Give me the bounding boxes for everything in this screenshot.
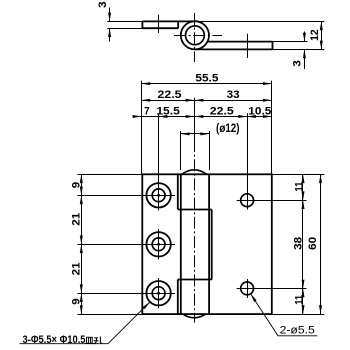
right plate-edge extension lines: [272, 174, 325, 176]
top view: right hole position mark: [247, 34, 249, 58]
svg-text:9: 9: [70, 298, 82, 304]
left dimension column line: [81, 174, 83, 314]
front view: middle knuckle right edge line: [211, 210, 213, 280]
svg-text:60: 60: [307, 237, 319, 250]
top view: barrel horizontal centerline: [174, 35, 222, 37]
svg-text:(ø12): (ø12): [216, 123, 240, 135]
top view: left hole position mark: [158, 15, 160, 33]
svg-text:11: 11: [293, 295, 305, 305]
hole centerline vertical (right col, with extension to dims): [247, 113, 249, 209]
dimension 3 (left leaf thickness): dim lines and arrows: [109, 8, 111, 22]
right dimension column line (60): [320, 174, 322, 314]
hole centerlines horizontal (right col, joined with right dim extensions): [237, 200, 307, 202]
dimension (ø12) barrel diameter: [181, 133, 209, 135]
kanji kou (hole): [94, 337, 103, 344]
svg-text:21: 21: [70, 213, 82, 226]
dimension 3 (right): dim lines and arrows: [304, 32, 306, 42]
front view: hinge vertical centerline: [194, 98, 196, 140]
dimension 12 (overall thickness): extension lines: [195, 21, 324, 23]
hole centerlines horizontal (left col, joined with left dim extension lines): [78, 195, 176, 197]
svg-text:3: 3: [292, 60, 304, 66]
right dimension column line (11/38/11): [302, 174, 304, 314]
svg-text:2-ø5.5: 2-ø5.5: [280, 325, 315, 337]
top view: knuckle barrel outer circle (ø12): [181, 21, 209, 49]
top view: left leaf (flat bar, thickness 3): [142, 20, 195, 22]
extension line from plate left edge: [141, 81, 143, 175]
front view: top knuckle arc bump: [182, 170, 207, 174]
leader line for countersunk holes label: [20, 302, 151, 344]
kanji sara (dish/countersink): [85, 337, 93, 343]
front view: barrel right edge line: [208, 174, 210, 314]
front view: left leaf curl edge line (top band): [177, 174, 179, 209]
top view: knuckle pin bore inner circle: [186, 26, 205, 45]
svg-text:10.5: 10.5: [248, 105, 271, 117]
extension lines for barrel ø12: [180, 131, 182, 170]
svg-text:3-Φ5.5× Φ10.5: 3-Φ5.5× Φ10.5: [23, 334, 86, 346]
dimension 3 (left leaf thickness): extension lines: [107, 21, 142, 23]
svg-text:22.5: 22.5: [210, 105, 234, 117]
top view: right leaf (flat bar, thickness 3): [208, 41, 273, 43]
svg-text:22.5: 22.5: [158, 89, 182, 101]
left plate-edge extension lines: [78, 174, 143, 176]
svg-text:38: 38: [292, 237, 304, 250]
svg-text:55.5: 55.5: [195, 72, 218, 84]
countersunk hole 3 (ø5.5, ø10.5 countersink) at left column: [146, 281, 170, 305]
plain hole 2 (ø5.5) at right column: [241, 282, 254, 295]
front view: middle knuckle bottom boundary: [178, 279, 212, 281]
dimension 12: dim line and arrows: [321, 21, 323, 49]
svg-text:11: 11: [293, 182, 305, 192]
top view: barrel vertical centerline: [194, 13, 196, 62]
svg-text:33: 33: [227, 89, 240, 101]
dimension row 22.5 / 33: [141, 100, 271, 102]
dimension row 7 / 15.5 / 22.5 / 10.5: [133, 116, 271, 118]
front view: plate outline 55.5 x 60: [142, 174, 271, 314]
svg-text:7: 7: [144, 105, 150, 117]
svg-text:3: 3: [97, 2, 109, 8]
hole centerline vertical (left col, with extension to dims): [158, 113, 160, 210]
countersunk hole 2 (ø5.5, ø10.5 countersink) at left column: [146, 232, 170, 256]
front view: left leaf curl edge line (bottom band): [177, 280, 179, 315]
front view: barrel left edge line: [180, 174, 182, 314]
front view: bottom knuckle arc bump: [183, 314, 206, 318]
svg-text:12: 12: [309, 29, 321, 41]
countersunk hole 1 (ø5.5, ø10.5 countersink) at left column: [146, 183, 170, 207]
extension line from plate right edge: [271, 81, 273, 175]
front view: middle knuckle top boundary: [178, 209, 212, 211]
svg-text:9: 9: [70, 182, 82, 188]
dimension 55.5 overall width: [141, 83, 271, 85]
plain hole 1 (ø5.5) at right column: [241, 194, 254, 207]
svg-text:15.5: 15.5: [156, 105, 180, 117]
leader line for right plain holes label: [251, 294, 318, 336]
dimension 3 (right leaf thickness): extension line: [273, 41, 308, 43]
svg-text:21: 21: [70, 262, 82, 275]
